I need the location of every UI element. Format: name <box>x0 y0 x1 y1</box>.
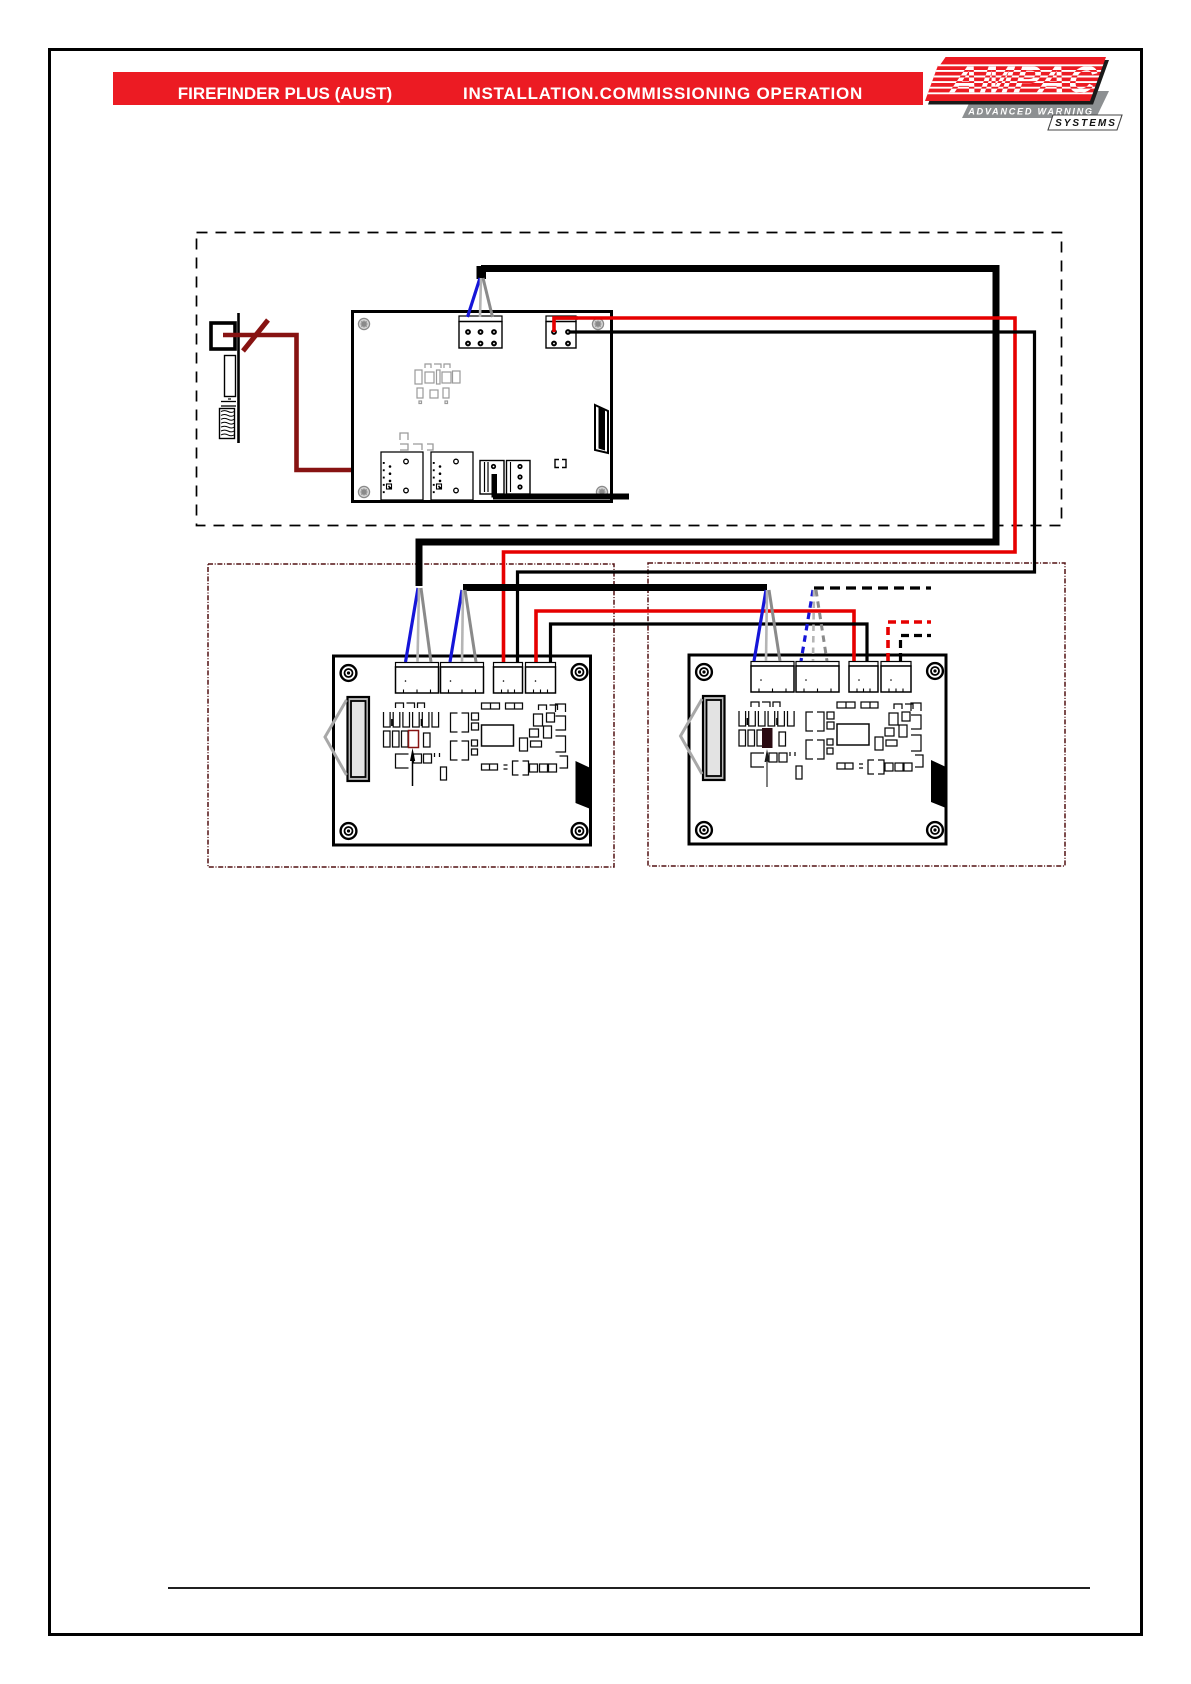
battery terminal block <box>211 323 235 349</box>
header red banner <box>113 72 923 105</box>
loop board 2 display edge connector <box>703 696 725 780</box>
battery supply wire (dark red) <box>223 335 377 470</box>
battery cell body <box>225 356 236 397</box>
loop board 2 screw bottom-right <box>927 822 943 838</box>
loop board 1 screw bottom-left <box>341 823 357 839</box>
PSU bottom earth wire (thick) <box>493 494 629 500</box>
PSU 6-way output connector <box>459 316 502 348</box>
svg-text:INSTALLATION.COMMISSIONING OPE: INSTALLATION.COMMISSIONING OPERATION <box>463 84 863 103</box>
PSU mounting screw top-left <box>358 318 369 329</box>
daisy chain thick black board1 to board2 <box>463 584 767 591</box>
fan gray into board1 term1 <box>421 588 431 662</box>
mains input terminal <box>480 461 504 495</box>
dashed continuation black wire <box>814 586 931 589</box>
battery black wire PSU to board 1 <box>518 332 1035 662</box>
fuse break slash <box>243 320 268 351</box>
black daisy wire board1 term4 to board2 term3 <box>551 624 868 662</box>
loop board 1 polarity component (dark red) <box>409 731 419 748</box>
AMPAC logo red parallelogram with AMPAC lettering <box>920 55 1115 101</box>
loop board 1 display edge connector <box>348 697 370 781</box>
loop board 1 backplane connector (black) <box>576 761 591 809</box>
fan light gray into board1 term1 <box>418 588 420 662</box>
wire stub at PSU connector <box>477 266 487 279</box>
fan gray into board1 term2 <box>465 590 476 662</box>
fan light gray into board2 term1 <box>766 590 767 661</box>
fan wire light gray into PSU connector <box>480 278 481 317</box>
loop board 2 screw top-right <box>927 663 943 679</box>
battery coil element <box>220 409 235 439</box>
loop board 1 screw bottom-right <box>572 823 588 839</box>
PSU silkscreen marks above relays <box>400 433 433 450</box>
slave cabinet 1 dash-dot enclosure <box>208 564 614 867</box>
fan gray into board2 term1 <box>769 590 780 661</box>
svg-text:FIREFINDER PLUS (AUST): FIREFINDER PLUS (AUST) <box>178 84 392 103</box>
AMPAC logo gray band ADVANCED WARNING <box>962 91 1109 118</box>
loop board 1 pointer arrow <box>410 748 415 786</box>
loop board 1 terminal block 3 <box>494 663 523 694</box>
loop board 1 board outline <box>334 656 591 845</box>
red daisy wire board1 term4 to board2 term3 <box>536 611 854 662</box>
loop board 1 screw top-right <box>572 664 588 680</box>
loop board 2 screw top-left <box>696 664 712 680</box>
loop board 1 ribbon chevron <box>325 700 347 775</box>
fan wire gray into PSU connector <box>483 278 493 317</box>
loop board 1 screw top-left <box>341 665 357 681</box>
logo corner notch <box>933 55 947 65</box>
silkscreen bracket pair <box>555 460 566 468</box>
PSU mounting screw bottom-right <box>596 486 607 497</box>
PSU regulator IC footprints (silkscreen) <box>415 364 460 404</box>
loop board 1 component cluster <box>384 703 568 780</box>
battery red wire PSU to board 1 <box>504 318 1016 662</box>
loop board 2 ribbon chevron <box>681 699 703 774</box>
fan wire blue into PSU connector <box>468 278 481 317</box>
PSU PCB board <box>353 312 612 502</box>
loop wire thick black (PSU to board 1) <box>419 269 996 587</box>
footer rule <box>168 1587 1090 1589</box>
earth stub wire <box>492 474 498 498</box>
loop board 1 terminal block 4 <box>526 663 556 694</box>
dashed fan light gray into board2 term2 <box>813 590 814 661</box>
loop board 2 backplane connector (black) <box>931 760 946 808</box>
AMPAC logo SYSTEMS plate <box>1048 115 1122 130</box>
PSU mounting screw bottom-left <box>358 486 369 497</box>
loop board 2 polarity component (filled) <box>762 728 773 748</box>
loop board 1 terminal block 2 <box>441 663 484 694</box>
FACP cabinet dashed enclosure <box>197 233 1062 526</box>
loop board 2 terminal block 2 <box>796 662 839 693</box>
loop board 2 pointer arrow <box>765 749 770 787</box>
PSU 4-way battery connector <box>546 316 576 348</box>
aux terminal 3-way <box>507 461 531 495</box>
dashed fan blue into board2 term2 <box>801 590 813 661</box>
loop board 2 terminal block 3 <box>849 662 878 693</box>
dark red segment over battery connector <box>553 316 578 319</box>
dashed black continuation from board2 term4 <box>901 636 932 662</box>
PSU card edge connector <box>595 405 608 453</box>
slave cabinet 2 dash-dot enclosure <box>648 563 1065 866</box>
loop board 2 screw bottom-left <box>696 822 712 838</box>
PSU mounting screw top-right <box>592 318 603 329</box>
fan light gray into board1 term2 <box>462 590 463 662</box>
relay K2 <box>431 452 473 500</box>
loop board 2 board outline <box>689 655 946 844</box>
fan blue into board1 term2 <box>450 590 462 662</box>
loop board 1 terminal block 1 <box>396 663 439 694</box>
AMPAC logo black shadow <box>928 60 1109 105</box>
loop board 2 component cluster <box>739 702 923 779</box>
battery cap plates <box>221 399 236 406</box>
relay K1 <box>381 452 423 500</box>
loop board 2 terminal block 1 <box>751 662 794 693</box>
battery rail wire <box>237 313 240 443</box>
dashed red continuation from board2 term4 <box>888 622 931 661</box>
fan blue into board1 term1 <box>406 588 419 662</box>
dashed fan gray into board2 term2 <box>816 590 827 661</box>
fan blue into board2 term1 <box>754 590 766 661</box>
svg-text:SYSTEMS: SYSTEMS <box>1055 118 1117 129</box>
loop board 2 terminal block 4 <box>881 662 911 693</box>
